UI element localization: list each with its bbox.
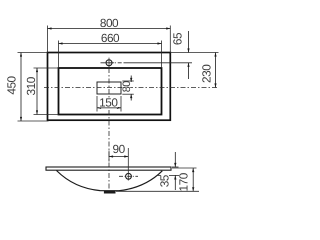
dimension 35: extension line from rim top bbox=[172, 166, 179, 168]
vertical centerline through tap hole, drain and front view bbox=[108, 68, 110, 190]
svg-text:310: 310 bbox=[24, 76, 38, 95]
dimension 450: line with arrows bbox=[20, 53, 22, 122]
dimension 80: extension lines bbox=[122, 80, 134, 82]
dimension 80: label mask bbox=[122, 82, 130, 93]
dimension 800: extension lines bbox=[47, 26, 49, 53]
dimension 660: line with arrows bbox=[59, 43, 162, 45]
svg-text:800: 800 bbox=[100, 16, 119, 30]
svg-text:150: 150 bbox=[99, 96, 118, 110]
front view: overflow hole circle bbox=[126, 173, 132, 179]
dimension 170: extension line bottom bbox=[116, 190, 199, 192]
basin top view: inner bowl rectangle 660x310 bbox=[59, 68, 162, 115]
dimension 35: lower reference line bbox=[158, 174, 161, 176]
dimension 80: upper arrow segment bbox=[130, 76, 132, 83]
drain rectangle 150x80 bbox=[97, 82, 121, 94]
tap hole circle bbox=[106, 60, 112, 66]
tap hole horizontal crosshair / extension to 65 dim bbox=[101, 62, 125, 64]
dimension 450: extension lines bbox=[18, 52, 48, 54]
dimension 150: extension lines bbox=[96, 96, 98, 112]
dimension 65: lower arrow segment bbox=[188, 63, 190, 79]
svg-text:35: 35 bbox=[157, 174, 171, 187]
dimension 230: line with arrows bbox=[215, 53, 217, 88]
dimension 90: line with arrows bbox=[109, 156, 128, 158]
dimension 660: extension lines bbox=[58, 41, 60, 69]
svg-text:170: 170 bbox=[177, 172, 191, 191]
svg-text:230: 230 bbox=[200, 64, 214, 83]
dimension 170: extension line top bbox=[172, 167, 197, 169]
dimension 170: line with arrows bbox=[192, 168, 194, 191]
dimension 310: extension lines bbox=[34, 67, 59, 69]
dimension 90: extension line right bbox=[127, 148, 129, 181]
svg-text:450: 450 bbox=[4, 75, 18, 94]
dimension 150: line with arrows bbox=[97, 107, 121, 109]
dimension 35: upper arrow segment bbox=[174, 152, 176, 167]
dimension 150: label mask bbox=[99, 98, 118, 108]
front view: bowl curve bbox=[57, 171, 163, 191]
svg-text:90: 90 bbox=[112, 142, 125, 156]
dimension 90: centerline solid tick at left end bbox=[108, 151, 110, 162]
dimension 35: lower arrow segment bbox=[174, 175, 176, 190]
svg-text:660: 660 bbox=[101, 31, 120, 45]
horizontal bowl centerline bbox=[44, 87, 218, 89]
dimension 230: extension line top bbox=[170, 52, 218, 54]
dimension 800: line with arrows bbox=[48, 28, 171, 30]
svg-text:65: 65 bbox=[170, 32, 184, 45]
dimension 310: line with arrows bbox=[36, 68, 38, 115]
front view: rim slab bbox=[46, 167, 171, 170]
basin top view: outer countertop rectangle 800x450 bbox=[48, 53, 171, 121]
overflow crosshair horizontal bbox=[119, 175, 138, 177]
dimension 80: lower arrow segment bbox=[130, 94, 132, 101]
front view: drain stub bbox=[104, 191, 116, 194]
dimension 65: upper arrow segment bbox=[188, 31, 190, 53]
svg-text:80: 80 bbox=[121, 81, 133, 93]
tap hole crosshair cross bbox=[108, 58, 110, 68]
